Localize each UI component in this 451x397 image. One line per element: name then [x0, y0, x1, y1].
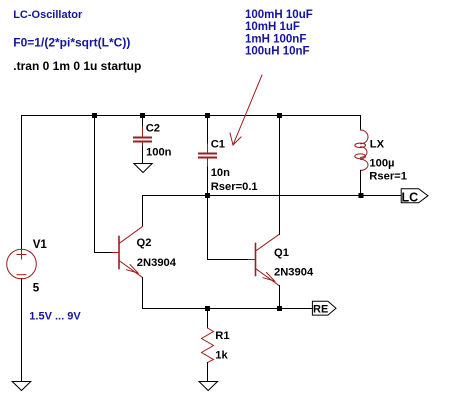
wire R1 bottom lead to ground [207, 363, 209, 382]
voltage source V1 [7, 249, 37, 279]
wire Q2 emitter to RE rail [142, 278, 144, 309]
ground (V1) [12, 382, 31, 391]
svg-text:LC: LC [402, 190, 419, 204]
svg-text:C2: C2 [146, 123, 160, 135]
svg-text:F0=1/(2*pi*sqrt(L*C)): F0=1/(2*pi*sqrt(L*C)) [13, 35, 130, 49]
wire Q2 collector to node LC rail [142, 196, 144, 227]
resistor R1 [202, 328, 214, 363]
svg-text:RE: RE [313, 303, 328, 315]
svg-text:100mH 10uF: 100mH 10uF [245, 9, 313, 21]
wire Q1 emitter to RE rail [279, 286, 281, 309]
svg-text:LC-Oscillator: LC-Oscillator [13, 9, 83, 21]
svg-text:Rser=0.1: Rser=0.1 [211, 181, 258, 193]
capacitor C2 [134, 116, 151, 164]
flag LC [401, 189, 428, 203]
wire Q2 base to top rail [95, 116, 112, 253]
svg-text:5: 5 [33, 282, 40, 295]
flag RE [312, 301, 336, 315]
wire mid rail (node LC) [143, 195, 402, 197]
svg-text:Rser=1: Rser=1 [369, 171, 407, 183]
transistor Q1 [248, 235, 280, 286]
svg-text:R1: R1 [215, 330, 229, 342]
wire R1 top lead [207, 309, 209, 329]
ground (R1) [199, 382, 218, 391]
svg-text:2N3904: 2N3904 [274, 267, 314, 279]
svg-text:10n: 10n [211, 167, 230, 179]
svg-text:100µ: 100µ [369, 157, 394, 169]
svg-text:10mH 1uF: 10mH 1uF [245, 21, 300, 33]
transistor Q2 [111, 227, 143, 278]
svg-text:1k: 1k [215, 349, 228, 361]
wire Q1 collector to top rail [279, 116, 281, 235]
inductor LX [360, 116, 362, 131]
svg-text:V1: V1 [33, 238, 48, 251]
svg-text:100uH 10nF: 100uH 10nF [245, 46, 310, 58]
node junctions [92, 113, 364, 311]
wire top rail [22, 115, 361, 117]
wire Q1 base to node LC rail [208, 196, 248, 260]
svg-text:Q1: Q1 [274, 247, 289, 259]
svg-text:1.5V ... 9V: 1.5V ... 9V [29, 311, 81, 323]
svg-text:2N3904: 2N3904 [137, 257, 177, 269]
wire LX bottom lead [360, 170, 362, 195]
ground (C2) [134, 164, 152, 173]
capacitor C1 [199, 116, 216, 196]
svg-text:Q2: Q2 [137, 237, 152, 249]
svg-text:LX: LX [370, 138, 385, 150]
svg-text:100n: 100n [146, 146, 172, 158]
svg-text:1mH 100nF: 1mH 100nF [245, 33, 306, 45]
wire RE rail [143, 308, 313, 310]
svg-text:.tran 0 1m 0 1u startup: .tran 0 1m 0 1u startup [13, 59, 141, 73]
wire left rail to V1 [21, 116, 23, 250]
annotation arrow [230, 75, 262, 145]
svg-text:C1: C1 [211, 138, 225, 150]
wire V1 to ground [21, 279, 23, 381]
